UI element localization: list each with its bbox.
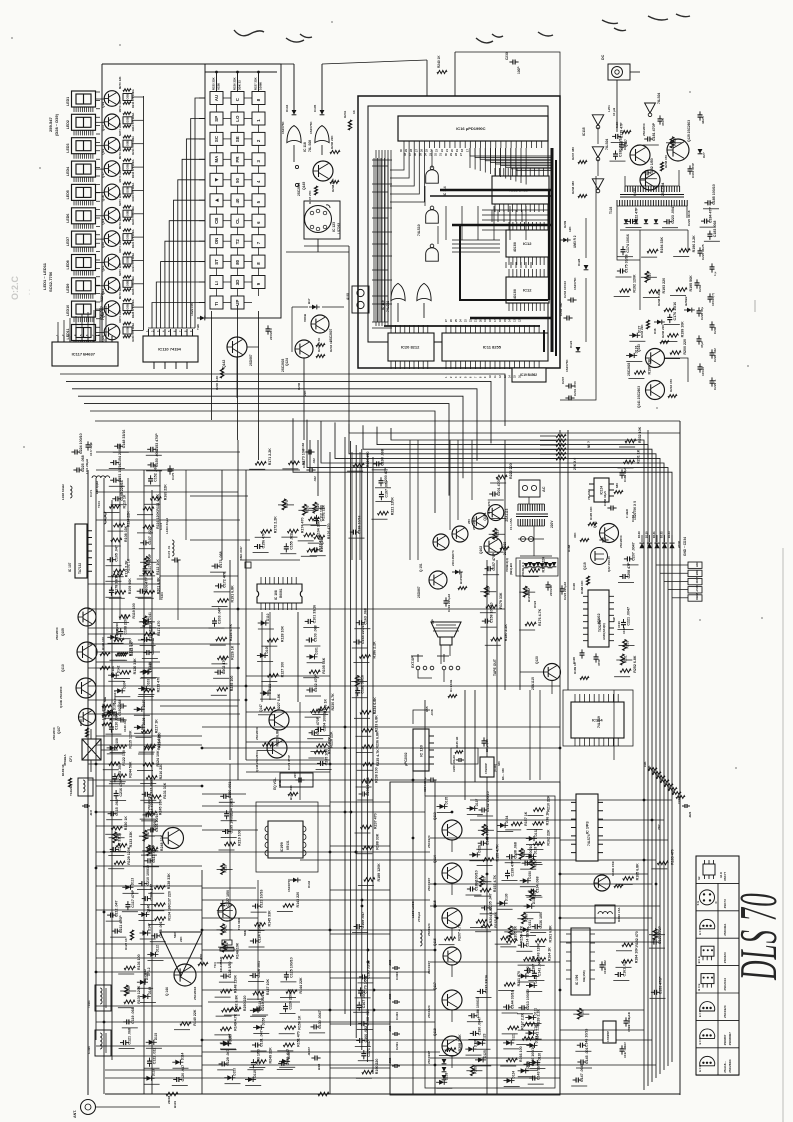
wire v [221, 470, 223, 560]
junction2 [655, 883, 658, 886]
svg-text:D134: D134 [505, 816, 509, 824]
svg-text:10KB: 10KB [278, 779, 282, 788]
capacitor C236 [710, 321, 718, 334]
resistor R165 [481, 911, 498, 928]
wire [643, 144, 659, 146]
diode D113 [122, 878, 134, 890]
resistor R225 [217, 676, 234, 692]
wire [217, 869, 233, 871]
svg-text:R114 22K: R114 22K [127, 511, 131, 527]
svg-text:M2TC 22K: M2TC 22K [118, 193, 122, 206]
scan specks [11, 21, 763, 769]
keypad key 5 [252, 194, 265, 207]
wire [139, 751, 155, 753]
svg-text:R162 22K: R162 22K [546, 829, 550, 846]
svg-text:R212 1K: R212 1K [130, 642, 134, 657]
wire [526, 1023, 542, 1025]
svg-text:R195 10K: R195 10K [589, 506, 593, 520]
wire [146, 1047, 162, 1049]
wire h2 [246, 675, 330, 677]
wire [109, 719, 125, 721]
svg-text:(3B1)-BO: (3B1)-BO [509, 562, 513, 575]
wire fan line [363, 425, 652, 1082]
wire key col link [237, 248, 239, 256]
resistor R134 [155, 906, 172, 921]
svg-text:R189 1K: R189 1K [573, 661, 577, 674]
capacitor C223 [663, 205, 675, 224]
wire [516, 1043, 532, 1045]
svg-text:M2TC 22K: M2TC 22K [118, 170, 122, 183]
svg-text:259-547: 259-547 [48, 117, 53, 132]
diode D?b [653, 320, 665, 334]
svg-text:OSB: OSB [126, 281, 130, 287]
svg-text:OSB: OSB [126, 187, 130, 193]
svg-text:C174 470P: C174 470P [287, 755, 291, 770]
wire [118, 1007, 134, 1009]
wire h2 [105, 1069, 202, 1071]
wire key row link [223, 281, 231, 283]
svg-text:R228 470 11ΦA: R228 470 11ΦA [131, 299, 135, 318]
wire [281, 536, 297, 538]
svg-text:R55: R55 [425, 706, 429, 712]
wire [249, 1067, 265, 1069]
resistor R217 [141, 719, 158, 734]
resistor R123 [144, 733, 161, 750]
wire [140, 904, 156, 906]
capacitor C219 [254, 992, 266, 1011]
diode rectifier [624, 219, 628, 224]
header connector J1 [688, 562, 702, 602]
svg-text:C177 470P: C177 470P [148, 553, 152, 572]
crystal filter XF1.2 10.7MHZ [143, 932, 202, 982]
wire top right dc line [455, 52, 560, 96]
diode audio bias [442, 1067, 447, 1072]
resistor R206 4.7K [316, 337, 325, 358]
wire [490, 482, 506, 484]
svg-text:M2TC 22K: M2TC 22K [118, 76, 122, 89]
wire fan line [307, 420, 668, 1066]
wire v [504, 440, 506, 690]
resistor R101 [307, 537, 324, 553]
svg-text:R204 6.8K: R204 6.8K [489, 906, 493, 924]
svg-text:R244 56K: R244 56K [129, 761, 133, 778]
resistor R186 [359, 641, 376, 659]
svg-text:R174 470: R174 470 [300, 518, 304, 534]
ic IC105 KB4419 [566, 928, 595, 995]
keypad key 9 [252, 276, 265, 289]
wire [307, 662, 323, 664]
wire v2 [185, 470, 187, 540]
diode D152 [518, 966, 530, 978]
wire [252, 1014, 268, 1016]
keypad key CL [231, 214, 244, 227]
fet Q119 2SK30A [583, 548, 611, 573]
wire [221, 820, 237, 822]
wire [372, 469, 388, 471]
resistor R108 [111, 525, 128, 542]
svg-text:2SA1115: 2SA1115 [531, 677, 535, 690]
wire [277, 911, 293, 913]
svg-text:2SC26Φ3: 2SC26Φ3 [728, 1059, 732, 1073]
wire [352, 697, 368, 699]
wire [142, 850, 158, 852]
wire h [202, 949, 435, 951]
ribbon comb for display [74, 224, 93, 229]
wire [375, 487, 391, 489]
wire rect bus [620, 229, 688, 231]
wire v2 [449, 440, 451, 530]
wire key row link [223, 261, 231, 263]
wire [140, 818, 156, 820]
diode VD3B [544, 562, 549, 567]
resistor R154 [506, 925, 523, 943]
wire [375, 501, 391, 503]
wire [141, 677, 157, 679]
svg-text:178Φ5P: 178Φ5P [606, 1031, 610, 1042]
svg-text:R226 22K: R226 22K [233, 77, 237, 90]
svg-text:C144 33/16: C144 33/16 [511, 990, 515, 1009]
svg-text:R234 6.8K: R234 6.8K [373, 697, 377, 715]
capacitor C401 470P [688, 163, 696, 178]
resistor R180 [491, 624, 508, 642]
svg-text:C135: C135 [313, 104, 317, 112]
wire ic16 to roms [510, 148, 512, 180]
svg-text:HZ6B2: HZ6B2 [684, 296, 688, 306]
svg-text:2ΦK 22: 2ΦK 22 [238, 80, 242, 90]
speaker SP [431, 619, 461, 645]
resistor Q107 bias [102, 706, 111, 717]
svg-text:S G: S G [696, 901, 700, 905]
resistor fan 22K [540, 453, 566, 456]
wire [528, 1083, 544, 1085]
wire [247, 1069, 263, 1071]
wire [524, 911, 540, 913]
svg-text:2SC1923: 2SC1923 [427, 835, 431, 848]
diode D131 [525, 1008, 537, 1020]
wire v [464, 690, 466, 800]
svg-text:.022: .022 [312, 458, 316, 464]
svg-text:C189 100/10: C189 100/10 [475, 870, 479, 891]
svg-text:OSB: OSB [126, 257, 130, 263]
wire [213, 677, 229, 679]
diode D112 [147, 945, 159, 957]
wire digital h [372, 303, 392, 305]
wire [619, 446, 635, 448]
wire digital v [493, 206, 495, 240]
wire display to transistor [96, 121, 105, 123]
svg-text:SP: SP [214, 116, 219, 122]
svg-text:C229 .1: C229 .1 [713, 379, 717, 390]
svg-text:C108 220/16: C108 220/16 [124, 614, 128, 635]
coil T102 [87, 1030, 111, 1056]
capacitor C230 100P [505, 52, 521, 74]
pinout row 3SK73 [696, 890, 739, 911]
resistor R243 [524, 943, 541, 962]
wire [526, 991, 542, 993]
or-gate IC118A 74LS08 [287, 126, 312, 153]
wire [520, 868, 536, 870]
wire key col link [237, 186, 239, 194]
wire digital h [372, 231, 392, 233]
capacitor C150 [148, 448, 160, 467]
svg-text:R243 120K: R243 120K [537, 943, 541, 962]
wire key row link [244, 179, 252, 181]
wire audio chain link [451, 1010, 453, 1022]
svg-text:R241 2.2K: R241 2.2K [535, 1023, 539, 1041]
antenna [73, 1100, 136, 1119]
svg-text:B6061: B6061 [279, 588, 283, 598]
svg-text:220V: 220V [550, 520, 554, 528]
capacitor C167 [357, 990, 367, 1011]
resistor R173 [288, 448, 305, 465]
svg-text:A54D: A54D [695, 585, 699, 592]
svg-text:E C B: E C B [698, 1065, 702, 1072]
transistor Q117 2SC1923 [427, 982, 462, 1018]
svg-text:C205 1/50: C205 1/50 [325, 749, 329, 766]
transistor Q118 2SC1923 [427, 1028, 462, 1064]
wire [279, 1066, 295, 1068]
capacitor C117 [125, 889, 134, 910]
svg-text:C211 470P: C211 470P [119, 915, 123, 933]
svg-text:80: 80 [235, 259, 240, 264]
svg-text:Q113: Q113 [433, 812, 437, 820]
resistor R129 [114, 846, 131, 865]
svg-text:IC 1Φ6: IC 1Φ6 [575, 975, 579, 985]
capacitor C135 [481, 893, 493, 910]
wire CF1 leads [90, 729, 92, 739]
wire h [88, 627, 240, 629]
svg-text:1ΦK: 1ΦK [643, 761, 647, 767]
svg-text:Q13Φ 2SC2603: Q13Φ 2SC2603 [59, 686, 63, 708]
wire key col link [237, 166, 239, 174]
svg-text:C182 1/50: C182 1/50 [650, 158, 654, 175]
svg-text:Q 144: Q 144 [165, 987, 169, 996]
svg-text:C179 47P: C179 47P [620, 122, 624, 139]
svg-text:M2TC 22K: M2TC 22K [118, 240, 122, 253]
resistor R162 [533, 829, 550, 846]
svg-text:R171 2.2K: R171 2.2K [268, 448, 272, 466]
capacitor C127 [220, 890, 230, 909]
wire [255, 536, 271, 538]
diode D128 1S2075K [573, 258, 588, 290]
wire [651, 868, 667, 870]
svg-text:C193: C193 [617, 621, 621, 628]
resistor R230 [318, 693, 335, 711]
wire q120 [551, 681, 553, 694]
wire keypad row stub [199, 97, 205, 99]
wire staircase bottom bus [148, 327, 195, 329]
svg-text:DB1Z: DB1Z [695, 593, 699, 600]
svg-text:R127 100: R127 100 [280, 662, 284, 678]
capacitor C177 [143, 553, 153, 574]
wire [144, 1083, 160, 1085]
wire [120, 990, 136, 992]
svg-text:C180 220/16: C180 220/16 [619, 137, 623, 158]
svg-text:D113: D113 [131, 878, 135, 886]
capacitor C220 [283, 989, 293, 1012]
svg-text:Q127: Q127 [624, 139, 628, 147]
junction [245, 685, 248, 688]
resistor R193 [649, 278, 666, 294]
svg-text:1S2075K: 1S2075K [309, 121, 313, 134]
svg-text:D133: D133 [534, 976, 538, 984]
wire key row link [244, 240, 252, 242]
resistor R174 [287, 518, 304, 534]
capacitor C142 [479, 791, 491, 812]
wire ic16 to roms [479, 148, 481, 171]
ceramic filter CF1 455kHz [63, 739, 101, 766]
diode bridge [532, 563, 537, 568]
wire h [96, 851, 430, 853]
svg-text:R225 22K: R225 22K [212, 77, 216, 90]
svg-text:IC 110: IC 110 [418, 744, 423, 756]
wire [527, 815, 543, 817]
svg-text:5.6K: 5.6K [615, 121, 619, 128]
seven-segment display LED2 [66, 114, 96, 130]
wire keypad row stub [199, 179, 205, 181]
diode D128 [525, 847, 537, 859]
wire [111, 659, 127, 661]
resistor R151 [283, 1031, 300, 1047]
resistor R252 [620, 655, 637, 673]
diode D146 [138, 905, 150, 917]
resistor R205 [501, 926, 518, 941]
capacitor C225 [73, 455, 85, 472]
pinout row 2SC2314 [696, 974, 739, 993]
svg-text:C24Φ: C24Φ [677, 796, 681, 804]
svg-text:R157 1K: R157 1K [524, 811, 528, 826]
wire c230 [455, 51, 509, 53]
wire h2 [96, 957, 202, 959]
junction2 [245, 699, 248, 702]
wire key col link [237, 227, 239, 235]
svg-text:SP: SP [431, 619, 435, 624]
wire rail [208, 1001, 300, 1003]
diode D27 D20? [560, 238, 571, 242]
wire [305, 695, 321, 697]
wire key col link [237, 105, 239, 113]
wire v [111, 500, 113, 1060]
svg-text:R246 22K: R246 22K [661, 324, 665, 338]
svg-text:D155: D155 [229, 1034, 233, 1042]
wire key col link [258, 166, 260, 174]
svg-text:R230 470 11ΦA: R230 470 11ΦA [131, 323, 135, 342]
wire upc2002 frame [413, 710, 430, 724]
capacitor C166 [356, 1026, 368, 1043]
junction2 [355, 851, 358, 854]
capacitor C133 [251, 1049, 261, 1068]
svg-text:C208 100μ10: C208 100μ10 [452, 755, 456, 772]
ribbon comb for display [74, 107, 93, 112]
ribbon comb for display [74, 247, 93, 252]
wire h2 [96, 785, 202, 787]
svg-text:C137 33/16: C137 33/16 [485, 975, 489, 994]
capacitor audio rail [388, 959, 400, 970]
resistor R126 [314, 524, 331, 540]
svg-text:74LS10: 74LS10 [417, 224, 421, 236]
wire [173, 1067, 189, 1069]
wire ladder v [384, 158, 386, 322]
wire [105, 833, 121, 835]
resistor R247 [143, 830, 150, 841]
svg-text:R197: R197 [648, 272, 652, 280]
svg-text:2SC2603: 2SC2603 [55, 627, 59, 640]
ic IC19 B4562 [512, 368, 546, 382]
thick bus horizontal 1b [430, 195, 552, 197]
wire [143, 866, 159, 868]
zener ZD4 etc [451, 550, 463, 574]
svg-text:R237 27K: R237 27K [308, 190, 312, 204]
wire fan line [335, 422, 660, 1074]
wire [355, 997, 371, 999]
wire v [237, 440, 239, 780]
resistor R216 [146, 764, 163, 780]
svg-text:1Φ.245MHZ: 1Φ.245MHZ [219, 956, 223, 972]
capacitor C187 [524, 956, 536, 973]
svg-text:D127: D127 [637, 325, 641, 333]
svg-text:1ΦK: 1ΦK [647, 765, 651, 771]
svg-text:R236 22K: R236 22K [330, 135, 334, 149]
svg-text:R224 470 11ΦA: R224 470 11ΦA [131, 253, 135, 272]
wire [110, 781, 126, 783]
capacitor C107 [140, 528, 152, 545]
wire [308, 757, 324, 759]
svg-text:R218: R218 [224, 865, 228, 873]
wire h [560, 873, 648, 875]
wire h2 [246, 771, 330, 773]
svg-text:330: 330 [497, 761, 501, 766]
svg-text:R179 33K: R179 33K [499, 592, 503, 609]
svg-text:D148: D148 [148, 987, 152, 995]
resistor R127 [267, 662, 284, 678]
capacitor C191 [141, 621, 153, 642]
diode D105 [104, 702, 116, 714]
keypad key ON [210, 235, 223, 248]
resistor R170 [282, 499, 289, 510]
svg-text:OSB: OSB [126, 140, 130, 146]
wire ladder rung [372, 191, 388, 193]
svg-text:R153 4.7K: R153 4.7K [493, 875, 497, 893]
wire fan line [377, 427, 648, 1086]
wire [109, 468, 125, 470]
wire key col link [258, 145, 260, 153]
svg-text:R253: R253 [626, 641, 630, 649]
svg-text:D129: D129 [477, 845, 481, 853]
resistor R117 [144, 621, 161, 636]
wire [144, 802, 160, 804]
capacitor C200 [379, 467, 389, 486]
svg-text:R170: R170 [285, 500, 289, 508]
wire key col link [258, 248, 260, 256]
capacitor C140 [478, 827, 490, 846]
resistor R148 [221, 975, 238, 994]
wire [219, 801, 235, 803]
svg-text:R177: R177 [526, 587, 530, 595]
resistor fan 10K [643, 761, 657, 770]
svg-text:R202 1K: R202 1K [127, 558, 131, 573]
or-gate IC118B [315, 126, 329, 143]
keypad key 3D [231, 276, 244, 289]
svg-text:50: 50 [235, 178, 240, 183]
wire key col link [216, 125, 218, 132]
wire [134, 714, 150, 716]
svg-text:R215 120K: R215 120K [129, 730, 133, 749]
wire mid horizontal y780 [88, 779, 430, 781]
pinout table frame [696, 856, 739, 1075]
transistor Q152 [594, 861, 615, 891]
svg-text:2ΦΦ8: 2ΦΦ8 [167, 1095, 171, 1104]
capacitor C155 [284, 533, 294, 552]
